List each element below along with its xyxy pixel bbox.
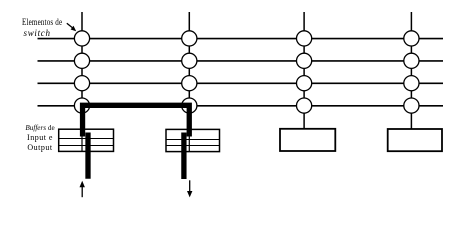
switch element circle r4c3 <box>297 98 312 113</box>
switch element circle r4c4 <box>404 98 419 113</box>
switch element circle r2c1 <box>74 53 89 68</box>
switch element circle r3c1 <box>74 76 89 91</box>
label: Elementos de switch <box>22 18 62 28</box>
switch element circle r3c3 <box>297 76 312 91</box>
bold path lower segment column 1 (jog right) <box>85 133 90 179</box>
switch element circle r3c2 <box>182 76 197 91</box>
switch element circle r1c1 <box>74 31 89 46</box>
output arrow (down) under buffer B2 <box>187 180 192 197</box>
switch element circle r4c1 <box>74 98 89 113</box>
input arrow (up) under buffer B1 <box>80 181 85 197</box>
wire column 3 <box>303 12 305 129</box>
switch element circle r1c2 <box>182 31 197 46</box>
wire row 4 <box>38 105 444 107</box>
wire row 2 <box>38 60 444 62</box>
buffer box B1 <box>59 129 114 151</box>
wire column 2 <box>188 12 190 151</box>
annotation arrow from label to switch element <box>67 23 76 31</box>
switch element circle r1c3 <box>297 31 312 46</box>
switch element circle r1c4 <box>404 31 419 46</box>
switch element circle r3c4 <box>404 76 419 91</box>
buffer box B3 <box>280 129 335 151</box>
label: Buffers de Input e Output <box>12 123 68 154</box>
switch element circle r2c4 <box>404 53 419 68</box>
buffer box B4 <box>388 129 442 151</box>
buffer box B2 <box>166 129 220 151</box>
switch element circle r4c2 <box>182 98 197 113</box>
wire column 1 <box>81 12 83 151</box>
switch element circle r2c3 <box>297 53 312 68</box>
bold path lower segment column 2 (jog left) <box>181 133 186 180</box>
switch element circle r2c2 <box>182 53 197 68</box>
wire row 1 <box>38 38 444 40</box>
bold routed path: up column1, across row4, down column2 <box>83 105 190 136</box>
wire column 4 <box>410 12 412 129</box>
wire row 3 <box>38 82 444 84</box>
